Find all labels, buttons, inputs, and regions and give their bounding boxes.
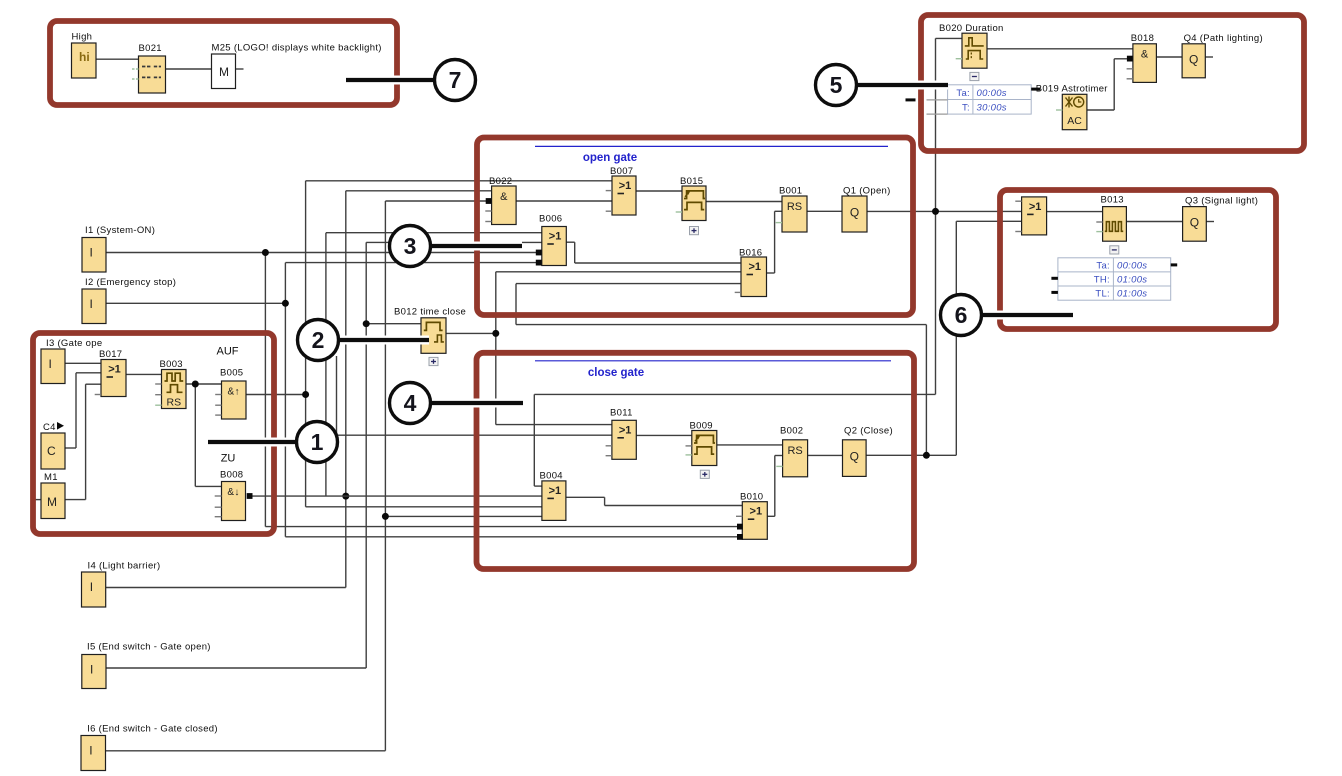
- callout 5: [857, 81, 948, 90]
- svg-text:B010: B010: [740, 492, 763, 503]
- input I4: [82, 572, 106, 607]
- timer B012: [421, 318, 446, 354]
- wire B004 output drop: [604, 497, 606, 505]
- B008 output marker: [247, 493, 253, 499]
- wire B004 to B010 pin1: [605, 505, 743, 507]
- svg-text:B021: B021: [139, 43, 162, 54]
- svg-text:RS: RS: [787, 445, 802, 457]
- svg-text:Q: Q: [1189, 53, 1198, 67]
- wire B006 to B016 pin1: [575, 262, 741, 264]
- junction B005 output: [302, 391, 309, 398]
- wire I1 branch vertical: [264, 253, 266, 527]
- wire Q2 feedback riser: [925, 325, 927, 456]
- wire Q3 output stub: [1206, 221, 1214, 223]
- svg-text:I: I: [89, 744, 92, 758]
- svg-text:C: C: [47, 444, 56, 458]
- B002 parameter stub: [776, 465, 782, 467]
- table B020 pin stubs: [1031, 88, 1040, 91]
- pulse generator B013: [1103, 207, 1127, 242]
- close gate header line: [535, 360, 891, 362]
- rs-latch B001: [782, 196, 807, 232]
- svg-text:TH:: TH:: [1094, 274, 1110, 285]
- wire B020 output to B018 pin1: [987, 48, 1133, 50]
- block B021 (message text): [139, 56, 166, 93]
- pulse timer B015: [682, 186, 706, 221]
- B007 stubs: [606, 190, 612, 192]
- svg-text:5: 5: [830, 72, 843, 98]
- input I1: [82, 238, 106, 273]
- svg-text:B006: B006: [539, 214, 562, 225]
- B013 collapse box: [1110, 246, 1119, 254]
- svg-text:I6 (End switch - Gate closed): I6 (End switch - Gate closed): [87, 724, 218, 735]
- svg-text:7: 7: [449, 67, 462, 93]
- wire B012 output: [446, 332, 496, 334]
- or-gate B011: [612, 420, 636, 459]
- wire B006 output drop: [574, 242, 576, 263]
- marker M1: [41, 483, 65, 519]
- wire B008 output to B004 pin2: [253, 495, 542, 497]
- callout 1: [208, 438, 297, 447]
- pulse relay B003: [162, 370, 187, 409]
- wire B016 output riser: [774, 211, 776, 273]
- or-gate B007: [612, 176, 636, 215]
- junction Q2 output: [923, 452, 930, 459]
- wire C4 to B017 pin2: [76, 372, 101, 374]
- junction I4 riser joins B008 output line: [342, 493, 349, 500]
- input I6: [81, 736, 106, 771]
- B018 stubs: [1127, 68, 1133, 70]
- svg-text:I3 (Gate ope: I3 (Gate ope: [46, 338, 102, 349]
- wire B005 output: [246, 394, 306, 396]
- svg-text:M: M: [47, 495, 57, 509]
- B012 expand box: [429, 357, 438, 365]
- svg-text:01:00s: 01:00s: [1117, 274, 1147, 285]
- rs-latch B002: [783, 440, 808, 477]
- wire AUF to B007 pin1: [306, 180, 612, 182]
- junction B003 output: [192, 381, 199, 388]
- B015 expand box: [690, 227, 699, 235]
- svg-text:AUF: AUF: [217, 346, 239, 358]
- svg-text:3: 3: [404, 233, 417, 259]
- callout 7: [346, 76, 434, 85]
- svg-text:I: I: [90, 246, 93, 260]
- wire M25 output stub: [236, 68, 244, 70]
- callout 4: [431, 399, 523, 408]
- wire Q2 to signal OR riser: [955, 221, 957, 455]
- svg-text:B007: B007: [610, 166, 633, 177]
- wire I5 to B006 pin2: [366, 241, 542, 243]
- wire B016 output: [767, 272, 775, 274]
- junction I5 branch to B012: [363, 320, 370, 327]
- svg-text:B020 Duration: B020 Duration: [939, 23, 1004, 34]
- B001 parameter stub: [776, 222, 782, 224]
- wire AUF to B004 pin3: [306, 506, 542, 508]
- output Q4: [1182, 44, 1205, 78]
- svg-text:AC: AC: [1067, 115, 1082, 127]
- wire Q1 feedback drop: [533, 394, 535, 486]
- callout 3: [431, 242, 522, 251]
- wire I6 riser: [384, 201, 386, 751]
- svg-text:open gate: open gate: [583, 152, 637, 164]
- svg-text:B003: B003: [160, 359, 183, 370]
- svg-text:Ta:: Ta:: [956, 88, 970, 99]
- wire M1 to B017 pin3: [86, 383, 101, 385]
- svg-text:&: &: [1141, 49, 1149, 61]
- svg-text:I: I: [90, 297, 93, 311]
- wire I2 output: [106, 302, 285, 304]
- B006 pin3 marker: [536, 250, 542, 256]
- wire C4 output: [65, 447, 76, 449]
- wire Q1 branch to B020 pin1: [936, 37, 963, 39]
- wire I2 branch vertical: [284, 263, 286, 537]
- wire AUF vertical bus: [305, 181, 307, 507]
- wire I4 riser: [345, 191, 347, 588]
- svg-text:B009: B009: [690, 421, 713, 432]
- wire Q1 branch vertical: [935, 38, 937, 394]
- svg-text:High: High: [72, 32, 93, 43]
- svg-text:B022: B022: [489, 176, 512, 187]
- input I5: [82, 655, 106, 689]
- wire Q2 output: [866, 454, 956, 456]
- svg-text:TL:: TL:: [1095, 289, 1110, 300]
- wire B019 riser: [1113, 59, 1115, 110]
- or-gate B006: [542, 227, 567, 266]
- region box 7 (High/B021/M25 group): [50, 21, 397, 105]
- wire B015 output to B001 S: [706, 201, 782, 203]
- wire Q1 feedback horizontal: [534, 393, 935, 395]
- wire Q1 feedback to B004 pin1: [534, 485, 542, 487]
- B010 stub pin2: [736, 515, 742, 517]
- svg-text:Q3 (Signal light): Q3 (Signal light): [1185, 196, 1258, 207]
- wire B009 output to B002 S: [717, 444, 783, 446]
- wire B012 to B011 pin1: [496, 424, 612, 426]
- svg-text:Q2 (Close): Q2 (Close): [844, 426, 893, 437]
- wire B001 output to Q1: [807, 210, 842, 212]
- wire B021 output to M25: [166, 68, 212, 70]
- svg-text:B004: B004: [540, 471, 563, 482]
- svg-text:30:00s: 30:00s: [977, 103, 1007, 114]
- svg-text:B008: B008: [220, 470, 243, 481]
- wire ZU riser to B006: [325, 233, 327, 496]
- junction I2 branch: [282, 300, 289, 307]
- junction B012 output: [492, 330, 499, 337]
- or-gate B016: [741, 257, 767, 297]
- wire B010 output riser: [774, 456, 776, 517]
- wire I6 output: [106, 750, 386, 752]
- svg-text:B013: B013: [1101, 194, 1124, 205]
- svg-text:Q4 (Path lighting): Q4 (Path lighting): [1184, 33, 1263, 44]
- svg-text:RS: RS: [167, 397, 182, 409]
- wire ZU to B006 pin1: [326, 232, 542, 234]
- wire Q2 feedback to B016 pin3: [516, 283, 741, 285]
- region box: close gate: [477, 353, 915, 569]
- svg-text:00:00s: 00:00s: [1117, 260, 1147, 271]
- input I2: [82, 289, 106, 324]
- svg-text:Ta:: Ta:: [1096, 260, 1110, 271]
- svg-text:&↓: &↓: [227, 487, 239, 498]
- junction I1 branch: [262, 249, 269, 256]
- parameter table B020: [948, 85, 1032, 114]
- B019 parameter stub: [1056, 109, 1062, 111]
- wire Q2 feedback horizontal: [516, 324, 926, 326]
- svg-text:hi: hi: [79, 50, 90, 64]
- wire Q2 feedback drop: [515, 284, 517, 325]
- wire I1 output to B006 pin3: [106, 252, 536, 254]
- wire B012 riser: [495, 272, 497, 425]
- open gate header line: [535, 145, 888, 147]
- table B013 pin stubs: [1171, 263, 1178, 266]
- wire B010 to B002 R: [775, 455, 783, 457]
- and-gate B022: [492, 186, 516, 225]
- wire signal OR output to B013: [1047, 211, 1103, 213]
- svg-text:B012 time close: B012 time close: [394, 307, 466, 318]
- callout 2: [339, 336, 429, 345]
- region box 6 (signal light group): [1000, 190, 1276, 329]
- parameter table B013: [1058, 258, 1171, 300]
- B015 parameter stub: [676, 211, 682, 213]
- B020 collapse box: [970, 72, 979, 80]
- svg-text:&: &: [500, 191, 508, 203]
- svg-text:T:: T:: [962, 103, 970, 114]
- B022 pin2 marker: [486, 198, 492, 204]
- region box 1 (gate control group): [33, 333, 274, 534]
- B005 stubs: [215, 394, 221, 396]
- B010 pin4 marker: [737, 534, 743, 540]
- svg-text:I: I: [49, 357, 52, 371]
- input hi (constant high): [72, 43, 97, 78]
- B009 parameter stub: [686, 454, 692, 456]
- svg-text:M1: M1: [44, 472, 58, 483]
- svg-text:>1: >1: [549, 231, 562, 243]
- svg-text:close gate: close gate: [588, 367, 644, 379]
- B018 pin2 marker: [1127, 56, 1133, 62]
- output Q1: [842, 196, 867, 232]
- wire Q1 output to signal OR: [867, 210, 1022, 212]
- svg-text:>1: >1: [108, 364, 121, 376]
- wire I5 riser: [365, 242, 367, 668]
- wire B003 branch down: [194, 384, 196, 486]
- B008 stubs: [215, 495, 222, 497]
- wire I5 branch to B012 input: [366, 323, 421, 325]
- svg-text:B017: B017: [99, 349, 122, 360]
- input I3: [41, 349, 65, 384]
- and-edge B008: [222, 482, 246, 521]
- B020 parameter stub: [956, 58, 962, 60]
- wire I2 branch to B010 pin4: [285, 536, 737, 538]
- wire B003 output to B005 pin1: [186, 383, 222, 385]
- svg-text:Q: Q: [850, 206, 859, 220]
- cut wire stub left of region 5: [906, 98, 916, 101]
- svg-text:B001: B001: [779, 186, 802, 197]
- wire Q2 to signal OR pin3: [956, 220, 1021, 222]
- and-gate B018: [1133, 44, 1157, 83]
- wire M1 output: [65, 499, 86, 501]
- duration timer B020: [962, 33, 987, 68]
- wire I2 branch to B006 pin4: [285, 262, 536, 264]
- junction I6 branch to B004: [382, 513, 389, 520]
- wire B016 to B001 R: [775, 210, 782, 212]
- B006 pin4 marker: [536, 260, 542, 266]
- wire I4 to B022 pin1: [346, 190, 492, 192]
- callout 6: [982, 311, 1073, 320]
- wire I1 branch to B010 pin3: [265, 526, 737, 528]
- wire hi output to B021: [96, 58, 139, 60]
- svg-text:B019 Astrotimer: B019 Astrotimer: [1036, 84, 1108, 95]
- B003 stubs: [155, 383, 161, 385]
- wire I6 to B022 pin2: [385, 200, 488, 202]
- svg-text:I4 (Light barrier): I4 (Light barrier): [88, 561, 161, 572]
- svg-text:4: 4: [404, 390, 417, 416]
- astro timer B019: [1062, 94, 1087, 129]
- marker M25: [212, 54, 236, 89]
- or-gate B010: [742, 502, 767, 540]
- svg-text:B018: B018: [1131, 33, 1154, 44]
- wire B018 output to Q4: [1156, 56, 1182, 58]
- svg-text:I: I: [90, 663, 93, 677]
- junction Q1 output: [932, 208, 939, 215]
- B022 stubs: [485, 210, 491, 212]
- wire B012 to B016 pin2: [496, 271, 741, 273]
- wire B022 output to B007 pin3: [516, 200, 612, 202]
- svg-text:M: M: [219, 65, 229, 79]
- wire B002 output to Q2: [808, 454, 843, 456]
- svg-text:&↑: &↑: [228, 387, 240, 398]
- wire I3 output to B017 pin1: [65, 362, 101, 364]
- B009 expand box: [700, 470, 709, 478]
- pulse timer B009: [692, 431, 717, 466]
- svg-text:6: 6: [955, 302, 968, 328]
- wire M1 input stub: [34, 499, 42, 501]
- svg-text:I5 (End switch - Gate open): I5 (End switch - Gate open): [87, 642, 211, 653]
- wire I6 branch to B004 pin4: [385, 515, 542, 517]
- svg-text:1: 1: [311, 429, 324, 455]
- svg-text:00:00s: 00:00s: [977, 88, 1007, 99]
- B013 stub: [1096, 221, 1102, 223]
- output Q3: [1183, 207, 1207, 242]
- output Q2: [843, 440, 867, 477]
- signal or stubs: [1015, 200, 1021, 202]
- svg-text:>1: >1: [750, 506, 763, 518]
- wire B011 output to B009: [636, 434, 692, 436]
- svg-text:>1: >1: [619, 424, 632, 436]
- svg-text:M25 (LOGO! displays white back: M25 (LOGO! displays white backlight): [212, 43, 382, 54]
- wire I4 output: [106, 587, 346, 589]
- wire B019 to B018 pin2: [1114, 58, 1127, 60]
- svg-text:B002: B002: [780, 426, 803, 437]
- wire B003 branch to B008 pin1: [195, 485, 221, 487]
- svg-text:>1: >1: [748, 261, 761, 273]
- B010 pin3 marker: [737, 524, 743, 530]
- wire B013 output to Q3: [1126, 221, 1182, 223]
- wire B010 output: [767, 515, 774, 517]
- wire M1 riser: [85, 384, 87, 499]
- B017 stub pin4: [95, 394, 101, 396]
- or-gate signal: [1022, 197, 1047, 235]
- svg-text:RS: RS: [787, 201, 802, 213]
- and-edge B005: [222, 381, 247, 419]
- svg-text:ZU: ZU: [221, 453, 236, 465]
- svg-text:>1: >1: [619, 180, 632, 192]
- wire B004 output: [566, 496, 605, 498]
- region box 5 (path lighting group): [921, 15, 1304, 151]
- region box: open gate: [477, 138, 913, 316]
- B011 stubs: [606, 445, 612, 447]
- svg-text:>1: >1: [1029, 201, 1042, 213]
- or-gate B004: [542, 481, 566, 521]
- B013 parameter stub: [1096, 231, 1102, 233]
- svg-text:B015: B015: [680, 176, 703, 187]
- svg-text:Q: Q: [1190, 216, 1199, 230]
- svg-text:B005: B005: [220, 368, 243, 379]
- counter C4: [41, 433, 65, 469]
- svg-text:B011: B011: [610, 408, 633, 419]
- wire I5 output: [106, 667, 366, 669]
- or-gate B017: [101, 360, 126, 397]
- B021 parameter stubs: [132, 68, 139, 70]
- svg-text:I2 (Emergency stop): I2 (Emergency stop): [85, 277, 176, 288]
- svg-text:01:00s: 01:00s: [1117, 289, 1147, 300]
- svg-text:2: 2: [312, 327, 325, 353]
- svg-text:C4: C4: [43, 422, 56, 433]
- wire B006 output: [566, 241, 574, 243]
- svg-text:I1 (System-ON): I1 (System-ON): [85, 225, 155, 236]
- wire Q4 output stub: [1205, 56, 1213, 58]
- wire C4 riser: [75, 373, 77, 448]
- svg-text:>1: >1: [549, 485, 562, 497]
- wire to B011 pin2: [337, 434, 612, 436]
- B016 stub pin4: [735, 291, 741, 293]
- wire B019 output: [1087, 109, 1114, 111]
- wire to B011 pin2 vertical: [336, 356, 338, 435]
- svg-text:I: I: [90, 580, 93, 594]
- wire B007 output to B015: [636, 190, 682, 192]
- wire B017 output to B003: [126, 373, 162, 375]
- svg-text:Q1 (Open): Q1 (Open): [843, 186, 891, 197]
- B009 stub: [686, 445, 692, 447]
- svg-text:Q: Q: [850, 450, 859, 464]
